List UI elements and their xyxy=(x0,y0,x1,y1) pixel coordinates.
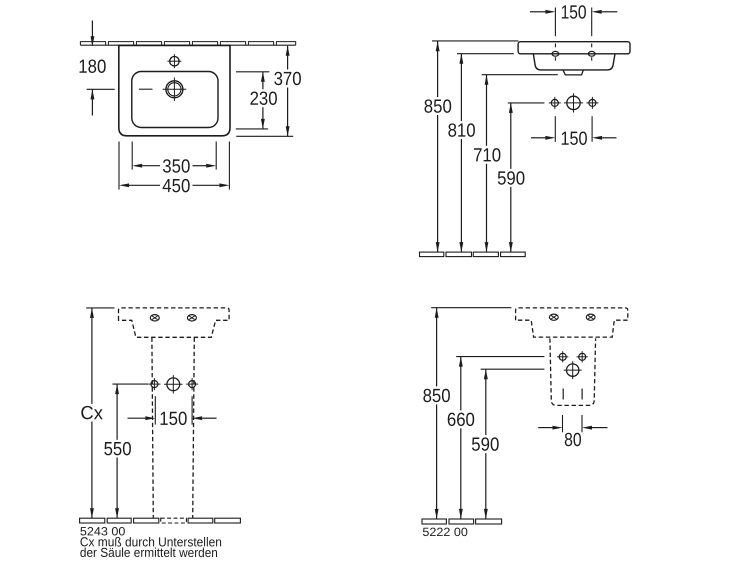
wall line (plan view, tiled strip) xyxy=(80,42,295,46)
floor line (pedestal view) xyxy=(422,519,502,524)
fixing holes (side view with pedestal) xyxy=(557,351,588,379)
pedestal slot marks xyxy=(563,389,582,400)
rim mounting holes (side view) xyxy=(552,51,595,60)
dimension 150 tap holes spacing xyxy=(530,2,617,47)
dimension 150 pedestal holes xyxy=(128,396,217,430)
dimension 230 xyxy=(236,72,278,129)
svg-text:590: 590 xyxy=(471,435,499,456)
svg-text:810: 810 xyxy=(448,121,476,142)
dimension 350 xyxy=(132,142,216,178)
svg-text:850: 850 xyxy=(424,97,452,118)
fixing holes row (side view) xyxy=(549,93,599,112)
dimension 370 xyxy=(236,46,301,137)
svg-text:710: 710 xyxy=(473,145,501,166)
dimension 850 (pedestal view) xyxy=(423,308,512,519)
svg-text:Cx: Cx xyxy=(80,403,103,424)
dimension 450 xyxy=(119,142,229,198)
washbasin rim (side view) xyxy=(518,42,630,54)
svg-text:850: 850 xyxy=(423,386,451,407)
dimension 590 (pedestal view) xyxy=(471,369,544,519)
basin mounting holes (side view with pedestal) xyxy=(549,314,595,320)
dimension 590 (wall hung) xyxy=(497,103,544,252)
washbasin outline dashed (front view) xyxy=(119,308,230,337)
dimension Cx xyxy=(80,308,114,518)
svg-text:590: 590 xyxy=(497,168,525,189)
svg-text:180: 180 xyxy=(78,57,106,78)
dimension 660 xyxy=(447,357,545,519)
dimension 850 (wall hung) xyxy=(424,41,519,252)
dimension 180 xyxy=(78,21,114,116)
svg-text:80: 80 xyxy=(564,430,582,451)
dimension 550 xyxy=(104,384,149,518)
fixing holes (front view) xyxy=(148,375,198,393)
svg-text:660: 660 xyxy=(447,410,475,431)
washbasin inner bowl (plan view) xyxy=(132,72,218,128)
overflow mark dash xyxy=(139,88,153,90)
tap hole (plan view) xyxy=(167,54,181,68)
drain hole (plan view) xyxy=(163,78,187,102)
svg-text:5222 00: 5222 00 xyxy=(422,525,468,539)
floor line (front view) xyxy=(80,518,241,523)
svg-text:450: 450 xyxy=(162,176,190,197)
svg-text:350: 350 xyxy=(162,156,190,177)
svg-text:230: 230 xyxy=(250,89,278,110)
pedestal column dashed (front view) xyxy=(152,338,194,518)
dimension 710 xyxy=(473,75,558,252)
svg-text:150: 150 xyxy=(560,129,587,150)
svg-text:550: 550 xyxy=(104,439,132,460)
washbasin outer rim (plan view) xyxy=(119,45,230,135)
floor line (wall hung view) xyxy=(420,252,526,257)
washbasin outline dashed (side view with pedestal) xyxy=(516,308,628,337)
dimension 80 xyxy=(538,415,607,451)
dimension 150 fixing holes spacing xyxy=(531,116,617,150)
svg-text:der Säule ermittelt werden: der Säule ermittelt werden xyxy=(80,545,218,560)
basin mounting holes (front view) xyxy=(150,315,196,321)
drain boss (side view) xyxy=(563,70,583,75)
pedestal dashed (side view) xyxy=(550,338,596,405)
svg-text:150: 150 xyxy=(159,409,187,430)
svg-text:370: 370 xyxy=(274,69,302,90)
svg-text:150: 150 xyxy=(561,2,587,23)
dimension 810 xyxy=(448,54,514,252)
washbasin bowl (side view) xyxy=(533,54,615,70)
